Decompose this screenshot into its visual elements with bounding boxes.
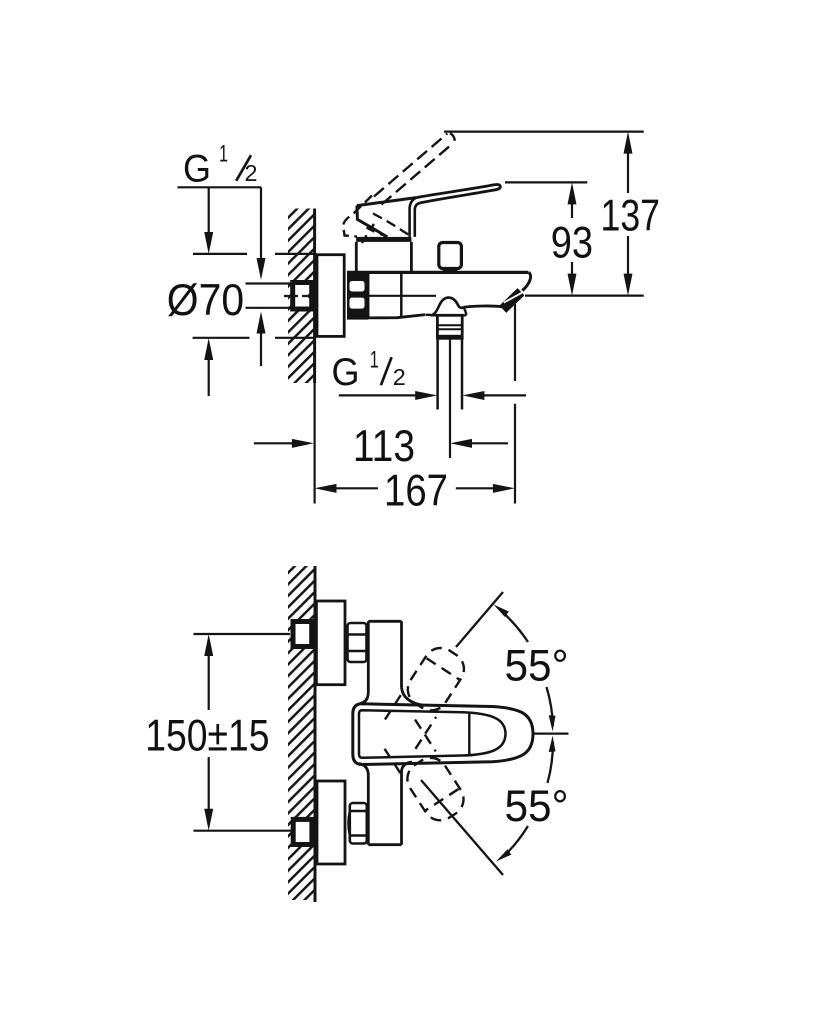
svg-text:55°: 55°	[505, 782, 569, 831]
svg-text:150±15: 150±15	[145, 712, 269, 761]
svg-text:93: 93	[551, 219, 593, 268]
svg-text:Ø70: Ø70	[167, 276, 244, 325]
svg-text:137: 137	[601, 191, 661, 240]
svg-text:2: 2	[393, 364, 406, 390]
svg-text:113: 113	[353, 422, 415, 471]
svg-text:167: 167	[384, 466, 448, 515]
svg-text:G: G	[332, 351, 360, 394]
svg-text:55°: 55°	[505, 642, 569, 691]
svg-text:G: G	[183, 148, 211, 191]
svg-text:1: 1	[370, 347, 379, 374]
svg-text:1: 1	[219, 141, 228, 168]
